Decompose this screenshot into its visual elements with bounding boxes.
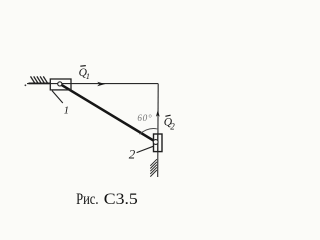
wall hatching (fixed support, lower vertical guide) — [150, 159, 157, 176]
vertical guide rail — [157, 84, 160, 177]
force arrow Q2 (arrowhead on vertical rail, pointing up) — [156, 110, 160, 117]
vertical rail through slider 2 — [157, 134, 159, 152]
svg-text:1: 1 — [86, 71, 90, 81]
leader line for label 2 — [137, 146, 154, 152]
svg-text:60°: 60° — [137, 113, 152, 123]
label Q2 bar — [165, 115, 170, 116]
connecting rod 1-2 — [61, 84, 156, 142]
svg-text:С3.5: С3.5 — [104, 191, 138, 208]
svg-text:2: 2 — [129, 147, 136, 162]
angle arc between rod and vertical rail — [140, 128, 158, 134]
horizontal guide rail — [27, 83, 158, 85]
svg-text:Рис.: Рис. — [76, 191, 98, 208]
leader line for label 1 — [52, 91, 63, 103]
slider 2 (block on vertical guide) — [154, 134, 163, 152]
wall hatching (fixed support, left guide) — [31, 76, 48, 83]
svg-text:2: 2 — [170, 122, 175, 132]
label Q1 bar — [80, 65, 86, 68]
wall base edge — [29, 82, 51, 84]
svg-text:1: 1 — [64, 105, 70, 117]
speck on left — [25, 84, 27, 86]
pin joint of slider 2 — [153, 140, 158, 145]
slider 1 (block on horizontal guide) — [50, 79, 71, 90]
pin joint of slider 1 — [58, 82, 62, 86]
force arrow Q1 (arrowhead on horizontal rail) — [97, 82, 105, 86]
